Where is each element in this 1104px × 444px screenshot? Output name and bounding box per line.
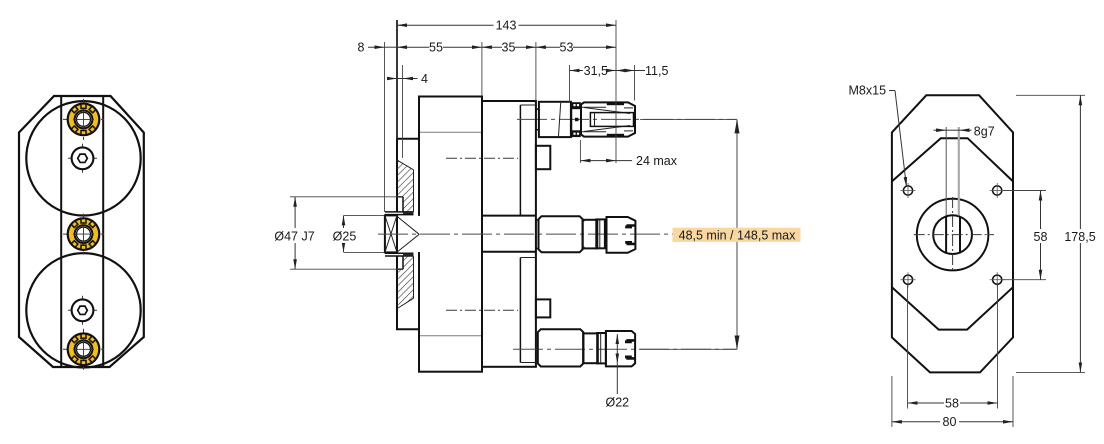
svg-text:M8x15: M8x15 [849, 84, 887, 98]
svg-text:58: 58 [945, 396, 959, 410]
svg-text:31,5: 31,5 [584, 64, 608, 78]
svg-text:8g7: 8g7 [974, 125, 995, 139]
svg-text:58: 58 [1034, 230, 1048, 244]
svg-text:Ø25: Ø25 [333, 229, 357, 243]
svg-text:4: 4 [421, 72, 428, 86]
svg-text:Ø47 J7: Ø47 J7 [274, 229, 314, 243]
svg-text:Ø22: Ø22 [605, 396, 629, 410]
svg-text:8: 8 [358, 41, 365, 55]
svg-text:48,5 min / 148,5 max: 48,5 min / 148,5 max [679, 229, 796, 243]
svg-text:80: 80 [943, 415, 957, 429]
svg-text:178,5: 178,5 [1064, 230, 1095, 244]
svg-text:24 max: 24 max [636, 154, 678, 168]
svg-text:35: 35 [502, 41, 516, 55]
svg-text:143: 143 [496, 19, 517, 33]
svg-text:11,5: 11,5 [645, 64, 668, 78]
svg-text:55: 55 [429, 41, 443, 55]
svg-text:53: 53 [560, 41, 574, 55]
